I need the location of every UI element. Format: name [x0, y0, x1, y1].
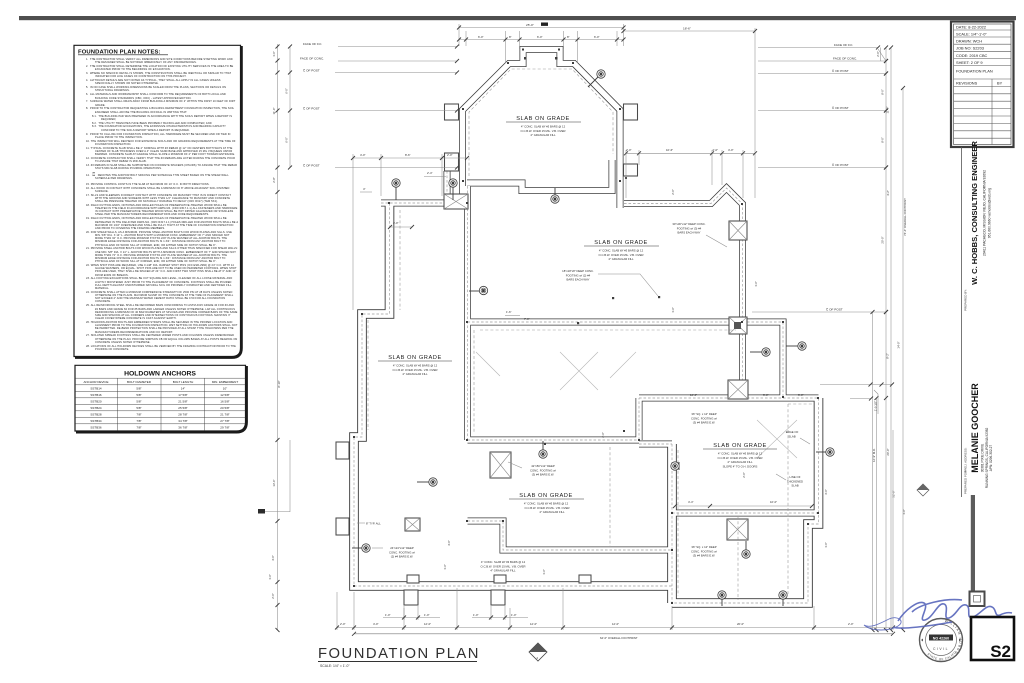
top right segment dims — [624, 148, 757, 198]
garage door pilaster 1 — [404, 590, 418, 605]
svg-text:29411 PACHECO, MISSION VIEJO,: 29411 PACHECO, MISSION VIEJO, CALIFORNIA… — [983, 170, 987, 256]
svg-text:4'-0": 4'-0" — [447, 540, 451, 546]
svg-text:12'-0": 12'-0" — [530, 622, 537, 626]
anchor A2 — [449, 179, 457, 200]
svg-text:DATE: 8-22-2022: DATE: 8-22-2022 — [956, 24, 986, 29]
edge of slab label — [786, 430, 810, 444]
svg-text:SSTB24: SSTB24 — [90, 406, 102, 410]
anchor A4 — [469, 286, 488, 294]
footing note 30x30 — [672, 222, 727, 247]
svg-text:REVISIONS: REVISIONS — [956, 81, 978, 86]
porch post notch 1 — [407, 575, 419, 583]
garage door pilaster 2 — [491, 590, 505, 605]
svg-text:4" GRANULAR FILL: 4" GRANULAR FILL — [539, 510, 565, 514]
svg-text:4'-0": 4'-0" — [373, 622, 379, 626]
svg-text:SCALE: 1/4"-1'-0": SCALE: 1/4"-1'-0" — [956, 31, 987, 36]
svg-text:NO 42260: NO 42260 — [933, 636, 949, 640]
svg-text:25'-0": 25'-0" — [526, 23, 534, 27]
svg-text:1'-6": 1'-6" — [443, 564, 447, 570]
svg-text:C̅ OF POST: C̅ OF POST — [303, 107, 320, 111]
svg-text:1'-0": 1'-0" — [385, 613, 391, 617]
svg-text:SSTB28: SSTB28 — [90, 413, 102, 417]
prepared for text — [964, 383, 994, 494]
footing pad P6 — [405, 518, 420, 531]
svg-text:64'-0" OVERALL FOOTPRINT: 64'-0" OVERALL FOOTPRINT — [600, 636, 638, 640]
svg-text:SLAB ON GRADE: SLAB ON GRADE — [594, 240, 648, 246]
bay pilaster notch L1 — [445, 104, 459, 120]
svg-text:SHEET: 2 OF 9: SHEET: 2 OF 9 — [956, 60, 983, 65]
svg-text:SLAB ON GRADE: SLAB ON GRADE — [519, 493, 573, 499]
svg-text:C̅ OF POST: C̅ OF POST — [826, 308, 843, 312]
footing note 24x24 — [372, 546, 415, 559]
anchor A10 — [742, 541, 750, 558]
footing walls — [381, 171, 819, 550]
svg-text:4": 4" — [363, 187, 366, 191]
svg-text:HOLDOWN ANCHORS: HOLDOWN ANCHORS — [124, 371, 196, 378]
svg-text:5/8": 5/8" — [136, 387, 141, 391]
title block — [951, 22, 1014, 148]
svg-text:SLAB ON GRADE: SLAB ON GRADE — [516, 116, 570, 122]
holdown anchors table — [75, 365, 247, 432]
alcove dims — [690, 393, 804, 397]
right vertical dim columns — [871, 46, 908, 633]
svg-text:34 7/8": 34 7/8" — [178, 419, 187, 423]
svg-text:2'-0": 2'-0" — [447, 153, 453, 157]
bay pilaster notch R1 — [624, 104, 638, 120]
svg-text:10'-0": 10'-0" — [770, 500, 777, 504]
svg-text:MIN. EMBEDMENT: MIN. EMBEDMENT — [212, 380, 239, 384]
prepared by text — [964, 141, 992, 311]
right leader C of post 3 — [758, 163, 888, 170]
svg-text:20'-0": 20'-0" — [881, 236, 885, 243]
svg-text:1'-6": 1'-6" — [671, 307, 675, 313]
svg-text:12 5/8": 12 5/8" — [220, 393, 229, 397]
svg-text:18'-6": 18'-6" — [683, 27, 691, 31]
svg-text:SSTB36: SSTB36 — [90, 426, 102, 430]
svg-text:SLAB: SLAB — [788, 434, 795, 438]
anchor A14 — [786, 342, 806, 350]
svg-text:1'-6": 1'-6" — [268, 574, 272, 580]
svg-text:1'-0": 1'-0" — [424, 613, 430, 617]
svg-text:(3) #4 BARS E.W.: (3) #4 BARS E.W. — [693, 421, 716, 425]
hall slab edge dashed — [368, 210, 736, 433]
svg-text:FACE OF F.F.: FACE OF F.F. — [834, 43, 853, 47]
svg-text:2'-0": 2'-0" — [671, 189, 675, 195]
right leader C of post 4 — [752, 308, 888, 315]
svg-text:6'-0": 6'-0" — [537, 35, 543, 39]
svg-text:3'-0": 3'-0" — [824, 489, 828, 495]
svg-text:4'-0": 4'-0" — [360, 153, 366, 157]
footing pad P2 — [729, 317, 747, 334]
svg-text:BARS EACH WAY: BARS EACH WAY — [677, 231, 700, 235]
svg-text:1'-6": 1'-6" — [754, 281, 758, 287]
svg-text:1'-6": 1'-6" — [902, 509, 906, 515]
svg-text:C̅ OF POST: C̅ OF POST — [832, 69, 849, 73]
footing note 42x50 — [508, 462, 556, 477]
svg-text:13'-6": 13'-6" — [272, 479, 276, 486]
footing pad P4 — [727, 519, 748, 540]
svg-text:74'-6" OVERALL FOOTPRINT: 74'-6" OVERALL FOOTPRINT — [903, 198, 907, 236]
svg-text:8'-0": 8'-0" — [881, 137, 885, 143]
svg-text:5'-0": 5'-0" — [798, 393, 804, 397]
footing note 18x18 — [562, 269, 658, 296]
top right dim 18'-6" — [622, 27, 758, 199]
svg-text:4'-0": 4'-0" — [728, 148, 734, 152]
right leader C of post 1 — [758, 69, 888, 76]
slab label bay — [506, 116, 581, 137]
svg-text:SSTB34: SSTB34 — [90, 419, 102, 423]
anchor A9 — [671, 462, 679, 470]
svg-text:SLAB: SLAB — [791, 484, 798, 488]
svg-text:5'-0": 5'-0" — [763, 393, 769, 397]
right mid north symbol — [917, 484, 929, 496]
svg-text:4'-0": 4'-0" — [393, 221, 399, 225]
north arrow diamond — [529, 643, 547, 661]
svg-text:12'-0": 12'-0" — [612, 622, 619, 626]
scattered small dims — [443, 189, 906, 575]
svg-text:20'-0": 20'-0" — [886, 448, 890, 455]
svg-text:7'-6": 7'-6" — [524, 317, 530, 321]
svg-text:10": 10" — [223, 387, 227, 391]
svg-text:CIVIL: CIVIL — [933, 647, 949, 651]
svg-text:1'-0": 1'-0" — [824, 542, 828, 548]
svg-text:21 5/8": 21 5/8" — [178, 400, 187, 404]
right wing edge of slab dashed — [610, 404, 812, 594]
svg-text:2'-0": 2'-0" — [626, 148, 632, 152]
svg-text:951.660.9660 wchobbs@wcb.or: 951.660.9660 wchobbs@wcb.org — [988, 188, 992, 238]
bottom main dim row — [335, 430, 895, 640]
svg-text:SCALE: 1/4" = 1'-0": SCALE: 1/4" = 1'-0" — [320, 664, 350, 668]
svg-text:SLAB ON GRADE: SLAB ON GRADE — [388, 355, 442, 361]
svg-text:1'-0": 1'-0" — [473, 613, 479, 617]
slab label garage — [703, 443, 777, 468]
S2 sheet box — [971, 617, 1014, 661]
svg-text:7/8": 7/8" — [136, 413, 141, 417]
svg-text:4'-4": 4'-4" — [688, 500, 694, 504]
svg-text:CODE: 2019 CBC: CODE: 2019 CBC — [956, 53, 988, 58]
svg-text:2'-0": 2'-0" — [713, 148, 719, 152]
svg-text:PROJ. ADDRESS:: PROJ. ADDRESS: — [964, 447, 968, 472]
svg-text:SSTB14: SSTB14 — [90, 387, 102, 391]
svg-text:8'-2": 8'-2" — [886, 353, 890, 359]
svg-text:6'-0": 6'-0" — [285, 137, 289, 143]
svg-text:2'-0": 2'-0" — [340, 622, 346, 626]
svg-text:BOLT DIAMETER: BOLT DIAMETER — [127, 380, 152, 384]
svg-text:4" GRANULAR FILL: 4" GRANULAR FILL — [402, 372, 428, 376]
svg-text:29 7/8": 29 7/8" — [220, 426, 229, 430]
svg-text:2'-0": 2'-0" — [742, 472, 746, 478]
left leaders — [303, 42, 459, 49]
svg-text:FOUNDATION PLAN: FOUNDATION PLAN — [956, 69, 993, 74]
svg-text:1'-6": 1'-6" — [542, 569, 546, 575]
garage door sub dims — [383, 606, 528, 620]
svg-text:36 7/8": 36 7/8" — [178, 426, 187, 430]
svg-text:JOB NO: S2203: JOB NO: S2203 — [956, 46, 984, 51]
svg-text:FACE OF CONC.: FACE OF CONC. — [300, 57, 324, 61]
svg-text:C̅ OF POST: C̅ OF POST — [303, 164, 320, 168]
svg-text:MELANIE GOOCHER: MELANIE GOOCHER — [970, 383, 980, 473]
svg-text:8" TYP. ALL: 8" TYP. ALL — [366, 522, 381, 526]
svg-text:2'-6": 2'-6" — [601, 432, 605, 438]
footing pad P1 30x30 — [729, 221, 747, 240]
svg-text:DRAWN: WCH: DRAWN: WCH — [956, 39, 982, 44]
porch post notch 3 — [579, 575, 591, 583]
slab label left wing — [378, 355, 452, 376]
svg-text:2'-8": 2'-8" — [272, 177, 276, 183]
bay slab edge dashed inset — [469, 69, 613, 176]
svg-text:4" GRANULAR FILL: 4" GRANULAR FILL — [608, 257, 634, 261]
svg-text:11'-0": 11'-0" — [886, 107, 890, 114]
svg-text:7/8": 7/8" — [136, 419, 141, 423]
svg-text:5/8": 5/8" — [136, 406, 141, 410]
svg-text:FACE OF F.F.: FACE OF F.F. — [303, 42, 322, 46]
svg-text:20'-0": 20'-0" — [737, 622, 744, 626]
svg-text:16'-0": 16'-0" — [690, 393, 697, 397]
footing note 36sq B — [691, 545, 717, 558]
svg-text:FOUNDATION PLAN: FOUNDATION PLAN — [318, 646, 480, 662]
svg-text:SLAB ON GRADE: SLAB ON GRADE — [713, 443, 767, 449]
anchor A8 — [539, 441, 547, 458]
footing pad P5 42x50 — [490, 452, 511, 478]
svg-text:14'-0": 14'-0" — [897, 341, 901, 348]
svg-text:SLOPE 4" TO O.H. DOORS: SLOPE 4" TO O.H. DOORS — [723, 464, 758, 468]
svg-text:11'-0": 11'-0" — [272, 108, 276, 115]
svg-text:8": 8" — [567, 35, 570, 39]
anchor A7 — [352, 544, 370, 552]
svg-text:20 5/8": 20 5/8" — [220, 406, 229, 410]
garage interior dims — [673, 500, 814, 508]
svg-text:BARS EACH WAY: BARS EACH WAY — [566, 278, 589, 282]
svg-text:2'-0": 2'-0" — [876, 51, 880, 57]
porch post notch 2 — [494, 575, 506, 583]
svg-text:5/8": 5/8" — [136, 393, 141, 397]
notes panel box — [74, 45, 242, 357]
svg-text:6'-0": 6'-0" — [594, 35, 600, 39]
svg-text:C̅ OF POST: C̅ OF POST — [832, 106, 849, 110]
svg-text:1'-0": 1'-0" — [272, 51, 276, 57]
svg-text:4'-2": 4'-2" — [886, 190, 890, 196]
svg-text:5/8": 5/8" — [136, 400, 141, 404]
svg-text:BOLT LENGTH: BOLT LENGTH — [173, 380, 194, 384]
anchor A1 — [392, 179, 400, 200]
svg-text:4" GRANULAR FILL: 4" GRANULAR FILL — [490, 569, 516, 573]
svg-text:7/8": 7/8" — [136, 426, 141, 430]
interior diagonal marks — [476, 352, 797, 458]
top bay segment dims — [457, 31, 626, 63]
left wall pilaster 2 — [336, 518, 349, 535]
svg-text:(3) #4 BARS E.W.: (3) #4 BARS E.W. — [693, 554, 716, 558]
anchor A5 — [551, 188, 559, 203]
svg-text:SSTB20: SSTB20 — [90, 400, 102, 404]
left vertical dim columns — [258, 44, 292, 632]
svg-text:(2) #4 BARS E.W.: (2) #4 BARS E.W. — [391, 555, 414, 559]
svg-text:C̅ OF POST: C̅ OF POST — [303, 69, 320, 73]
svg-text:6'-0": 6'-0" — [285, 88, 289, 94]
svg-text:SSTB16: SSTB16 — [90, 393, 102, 397]
svg-text:1'-0": 1'-0" — [511, 613, 517, 617]
svg-text:8'-0": 8'-0" — [881, 89, 885, 95]
bay pilaster notch R2 — [624, 164, 638, 176]
slab label center right — [584, 240, 659, 261]
svg-text:6'-0": 6'-0" — [478, 35, 484, 39]
foundation plan notes text — [86, 58, 238, 352]
anchor A13 — [816, 448, 834, 456]
svg-text:4" GRANULAR FILL: 4" GRANULAR FILL — [530, 133, 556, 137]
svg-text:21 7/8": 21 7/8" — [220, 413, 229, 417]
svg-text:(3) #4 BARS E.W.: (3) #4 BARS E.W. — [532, 473, 555, 477]
svg-text:W. C. HOBBS, CONSULTING ENGINE: W. C. HOBBS, CONSULTING ENGINEER — [970, 141, 979, 285]
svg-text:1'-0 1/2": 1'-0 1/2" — [874, 401, 878, 411]
svg-text:FACE OF CONC.: FACE OF CONC. — [833, 57, 857, 61]
anchor A12 — [779, 591, 787, 606]
svg-text:8": 8" — [509, 35, 512, 39]
svg-text:C̅ OF POST: C̅ OF POST — [832, 163, 849, 167]
svg-text:ANCHOR DEVICE: ANCHOR DEVICE — [83, 380, 108, 384]
svg-text:8'-10": 8'-10" — [277, 380, 281, 387]
svg-text:10'-6": 10'-6" — [666, 148, 673, 152]
anchor A3 — [588, 70, 605, 87]
left wall pilaster 1 — [336, 442, 349, 459]
svg-text:1'-6": 1'-6" — [506, 310, 512, 314]
svg-text:52'-0": 52'-0" — [892, 490, 896, 497]
footing pad beam end — [444, 194, 468, 209]
left wing top dims — [351, 153, 469, 310]
bay pilaster notch L2 — [445, 153, 459, 171]
8 typ label — [357, 522, 381, 526]
svg-text:S2: S2 — [990, 642, 1011, 661]
anchor A11 — [718, 591, 726, 606]
svg-text:2'-0": 2'-0" — [848, 622, 854, 626]
svg-text:27 7/8": 27 7/8" — [220, 419, 229, 423]
svg-text:12'-0": 12'-0" — [424, 622, 431, 626]
anchor A15 — [750, 348, 770, 356]
svg-text:4'-0": 4'-0" — [271, 555, 275, 561]
foundation plan title — [318, 646, 480, 668]
garage slab dashed lines — [678, 450, 738, 600]
svg-text:APN: 0296-302-27: APN: 0296-302-27 — [989, 445, 993, 472]
svg-text:2'-4": 2'-4" — [427, 171, 433, 175]
slab label center — [509, 493, 584, 514]
thickened slab label — [776, 474, 803, 488]
right leader FACE OF F.F. — [758, 43, 880, 50]
svg-text:2'-0": 2'-0" — [271, 593, 275, 599]
svg-text:PREPARED BY:: PREPARED BY: — [964, 289, 968, 311]
svg-text:28 7/8": 28 7/8" — [178, 413, 187, 417]
svg-text:14": 14" — [181, 387, 185, 391]
slab subnote porch — [481, 560, 526, 573]
right strip separators — [962, 147, 985, 606]
post base dots — [353, 49, 819, 605]
right leader FACE OF CONC. — [758, 49, 888, 63]
svg-text:17 5/8": 17 5/8" — [178, 393, 187, 397]
svg-text:BY: BY — [997, 81, 1003, 86]
sheet top border — [19, 16, 1016, 20]
footing pad P3 — [728, 380, 748, 399]
top bay dim 25'-0" — [457, 23, 626, 47]
right leader C of post 2 — [758, 106, 888, 113]
svg-text:25 5/8": 25 5/8" — [178, 406, 187, 410]
svg-text:16 5/8": 16 5/8" — [220, 400, 229, 404]
footing note 36sq A — [691, 412, 717, 425]
svg-text:16'-9" M.O.: 16'-9" M.O. — [872, 448, 876, 462]
anchor A6 — [417, 478, 437, 486]
signature — [864, 600, 1012, 630]
svg-text:8'-6": 8'-6" — [405, 153, 411, 157]
